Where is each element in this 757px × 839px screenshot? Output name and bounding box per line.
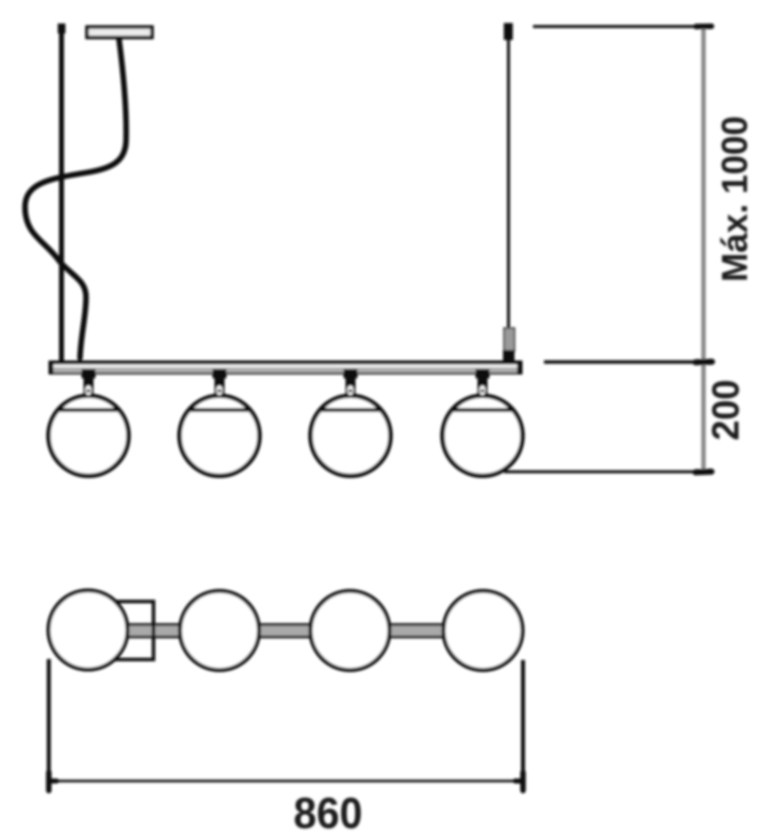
svg-text:Máx. 1000: Máx. 1000 (714, 116, 755, 282)
suspension rod (front view, left) (59, 27, 64, 362)
svg-text:200: 200 (706, 380, 748, 441)
horizontal dimension line 860 (49, 780, 523, 783)
right extension line of 860 dimension (521, 660, 525, 790)
extension line at bar level (middle tick) (544, 360, 714, 364)
vertical dimension line (right) (701, 26, 706, 472)
ceiling canopy plate (87, 27, 152, 38)
suspension rod tip (front view, left) (58, 24, 66, 34)
dimension terminator at bar level (696, 359, 713, 366)
globe G3 (plan view) (311, 591, 390, 670)
globe lamp G3 (front view) (311, 369, 391, 476)
globe G4 (plan view) (444, 591, 523, 670)
right suspension cable (wire) (507, 28, 510, 330)
left dimension terminator (46, 773, 52, 791)
globe G1 (plan view) (49, 591, 128, 670)
extension line at ceiling level (top tick) (533, 25, 713, 28)
horizontal bar / track (front view) (49, 361, 523, 375)
dimension terminator at globe bottom level (696, 469, 712, 476)
connecting bar (bottom plan view) (88, 625, 483, 638)
globe lamp G4 (front view) (443, 369, 523, 476)
cable gripper fitting (gray sleeve) (504, 328, 515, 351)
dimension terminator at ceiling level (696, 23, 712, 29)
canopy mounting square (plan view) (114, 602, 154, 660)
globe G2 (plan view) (180, 591, 259, 670)
globe lamp G2 (front view) (180, 369, 260, 476)
globe lamp G1 (front view: socket nub, stem, glass sphere, neck line) (49, 369, 129, 476)
extension line at globe bottom level (bottom tick) (504, 470, 712, 473)
left extension line of 860 dimension (47, 659, 51, 792)
cable gripper base (black) (503, 350, 515, 361)
right dimension terminator (520, 773, 526, 791)
svg-text:860: 860 (294, 789, 363, 838)
power cord (S-curve wire from canopy to bar) (25, 39, 126, 358)
right suspension cable top nub (504, 23, 513, 40)
